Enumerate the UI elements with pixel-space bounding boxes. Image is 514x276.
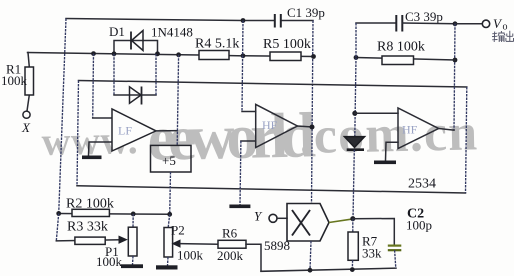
terminal X input [23, 111, 30, 118]
svg-text:+5: +5 [162, 153, 176, 168]
wire op-amp1 +in stub [93, 117, 112, 119]
op-amp U3 [398, 108, 439, 149]
wire Y to multiplier [277, 217, 287, 219]
terminal Y [269, 214, 277, 222]
svg-text:HF: HF [402, 123, 418, 137]
ground P2 [156, 265, 178, 269]
wire ring top rail [79, 81, 467, 88]
wire C3/R8 node vertical down through diode to multiplier output [355, 23, 357, 58]
ground op-amp2 [229, 205, 250, 209]
diode D1b (points right) [130, 87, 142, 105]
wiper arrow into P1 [119, 236, 128, 244]
wire multiplier bottom pin [310, 241, 311, 270]
wire top feedback horizontal [66, 19, 275, 21]
wire to Vo terminal [455, 23, 482, 25]
node P1 top [131, 212, 136, 217]
terminal Vo [482, 20, 489, 27]
diode D1 loop top wire [114, 41, 158, 54]
node R2 left [56, 211, 61, 216]
wire bottom bus [261, 268, 396, 271]
svg-text:2534: 2534 [408, 177, 436, 192]
wire op-amp1 output [156, 130, 177, 132]
node op-amp3 +in [352, 111, 357, 116]
wire R6 right corner down to bottom bus [246, 244, 261, 271]
node multiplier bottom [308, 268, 313, 273]
node Vo top [453, 21, 458, 26]
label 输出 (output) drawn glyphs [492, 31, 514, 42]
resistor R4 [199, 51, 229, 60]
wire op-amp1 output up to R4 row and down to +5 box [177, 55, 178, 146]
diode D2 (points down, bold) [345, 137, 365, 150]
wire ring right side [466, 87, 467, 193]
ground op-amp3 [374, 161, 396, 165]
capacitor C3 [396, 15, 402, 32]
wire C3 top [356, 22, 396, 24]
svg-text:R2 100k: R2 100k [66, 197, 114, 212]
node multiplier output / R7 / C2 [350, 216, 355, 221]
wire Vo node down to op-amp3 output [454, 24, 455, 130]
wire op-amp3 +in stub [355, 112, 398, 114]
wire op-amp2 +in vertical [242, 21, 243, 112]
svg-text:Y: Y [254, 209, 263, 224]
wire C1 right to R5 right [281, 20, 313, 22]
svg-text:100k: 100k [177, 248, 204, 263]
svg-text:R3 33k: R3 33k [67, 220, 108, 235]
wire ring bottom rail [77, 186, 466, 193]
svg-text:100p: 100p [406, 218, 432, 233]
wire C2 bottom [395, 250, 396, 268]
node op-amp1 output / R4 [176, 52, 181, 57]
wire op-amp3 output [439, 129, 454, 131]
diode D1 loop bottom wire [113, 54, 115, 95]
multiplier U4 5898 [287, 204, 329, 242]
ground P1 [121, 264, 143, 268]
power box +5 [151, 145, 192, 172]
svg-text:D1: D1 [109, 24, 125, 39]
wire op-amp2 -in stub [241, 140, 256, 142]
potentiometer P2 [164, 214, 173, 265]
wire ring left side [77, 81, 79, 186]
resistor R2 [59, 209, 170, 216]
potentiometer P1 [128, 214, 137, 265]
wiper arrow into P2 [172, 239, 181, 247]
svg-text:R6: R6 [222, 226, 238, 241]
svg-text:R4 5.1k: R4 5.1k [195, 37, 239, 52]
wire op-amp2 output [297, 126, 312, 127]
resistor R7 [348, 219, 358, 270]
svg-text:C1 39p: C1 39p [287, 5, 325, 20]
watermark www.eeworld.com.cn [41, 96, 479, 176]
wire vertical C1/R5 node down to multiplier [312, 21, 314, 204]
capacitor C2 (olive plates) [388, 246, 402, 251]
node R5 right [311, 54, 316, 59]
node R8 left / C3 [354, 55, 359, 60]
op-amp U2 [256, 104, 298, 147]
svg-text:1N4148: 1N4148 [151, 25, 193, 40]
svg-text:33k: 33k [362, 246, 382, 261]
svg-text:o: o [503, 22, 508, 33]
node D1 left [112, 51, 117, 56]
svg-text:V: V [493, 16, 503, 31]
node top wire junction [241, 18, 246, 23]
op-amp U1 [112, 109, 156, 151]
wire op-amp1 +in vertical [92, 54, 95, 118]
capacitor C1 [275, 14, 281, 28]
wire continuation down [355, 58, 356, 137]
svg-text:C3 39p: C3 39p [405, 9, 443, 24]
node op-amp2 output [310, 125, 315, 130]
wire left feedback vertical [59, 19, 66, 214]
ground op-amp1 [82, 156, 102, 160]
resistor R1 [25, 53, 34, 112]
svg-text:100k: 100k [1, 73, 28, 88]
svg-text:LF: LF [118, 124, 132, 138]
svg-text:X: X [21, 120, 31, 135]
wire D1 bottom horizontal [114, 94, 156, 96]
wire P2 wiper to R6 [180, 243, 218, 246]
svg-text:100k: 100k [96, 254, 123, 269]
resistor R3 [56, 237, 120, 244]
wire op-amp2 +in stub [242, 111, 256, 113]
wire op-amp2 -in down to ground [239, 141, 242, 205]
resistor R5 [270, 52, 301, 61]
svg-text:P2: P2 [171, 223, 185, 238]
wire main input row y54 [28, 53, 244, 56]
wire op-amp1 -in stub [89, 142, 113, 156]
resistor R8 [382, 56, 414, 65]
diode D1a (points left) [131, 31, 143, 51]
wire diode cathode down to multiplier output node [353, 150, 354, 219]
node A (R1 / op-amp1 +in junction) [91, 51, 96, 56]
node P2 top / +5 feed [167, 212, 172, 217]
wire D1 loop right vertical [155, 54, 157, 95]
wire multiplier output (olive) [329, 219, 353, 223]
wire +5 box bottom vertical [169, 172, 172, 214]
svg-text:R8 100k: R8 100k [377, 40, 425, 55]
wire R5 row [243, 55, 314, 58]
wire R8 row [356, 58, 455, 61]
svg-text:5898: 5898 [264, 238, 290, 253]
svg-text:R5 100k: R5 100k [263, 37, 311, 52]
svg-text:200k: 200k [217, 248, 244, 263]
resistor R6 [218, 240, 246, 248]
node D1 right [155, 51, 160, 56]
wire op-amp3 -in stub [386, 142, 399, 160]
node R4/R5/C1 [241, 53, 246, 58]
svg-text:HF: HF [262, 118, 278, 132]
node R7 bottom [350, 267, 355, 272]
wire C3 right [402, 22, 455, 25]
wire R2 left down to R3 [56, 214, 58, 241]
node R8 right [453, 58, 458, 63]
wire C2 top branch [353, 219, 395, 245]
